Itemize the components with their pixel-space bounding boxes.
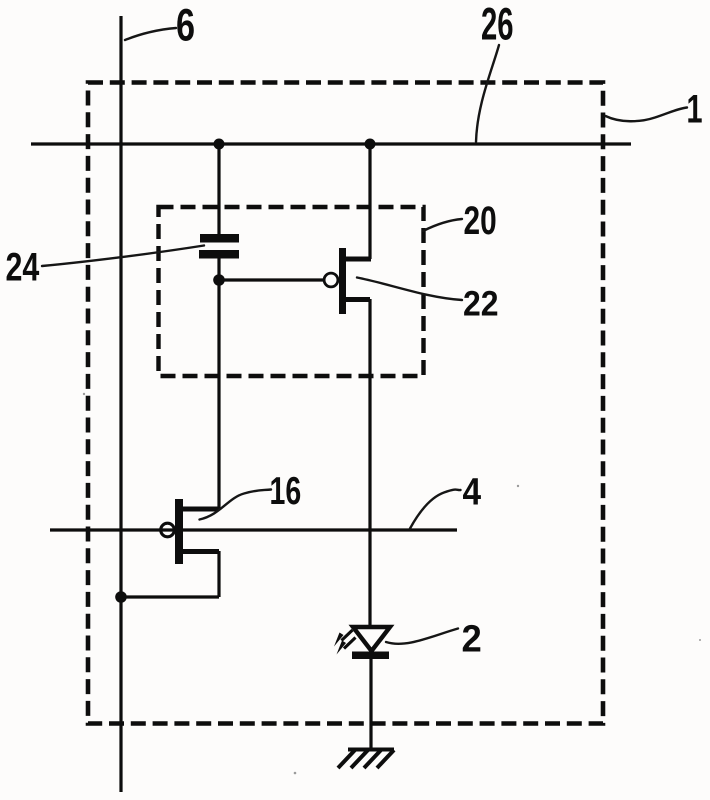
svg-text:24: 24 [6, 244, 40, 289]
svg-text:4: 4 [463, 471, 482, 513]
svg-text:20: 20 [464, 199, 497, 243]
svg-text:1: 1 [687, 87, 703, 132]
svg-text:6: 6 [176, 1, 195, 51]
svg-text:2: 2 [462, 617, 482, 660]
svg-text:22: 22 [463, 284, 499, 324]
svg-text:16: 16 [270, 470, 302, 513]
svg-text:26: 26 [481, 0, 514, 50]
